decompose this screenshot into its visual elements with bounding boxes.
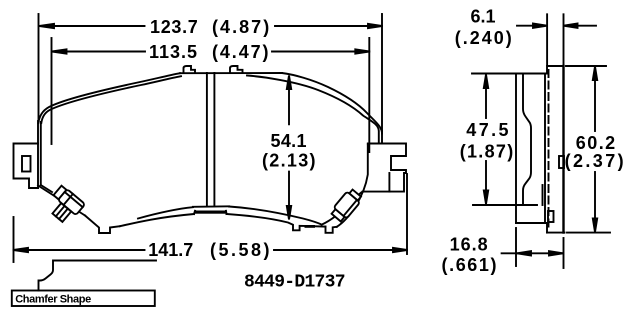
svg-text:123.7: 123.7	[150, 17, 198, 37]
svg-text:60.2: 60.2	[576, 133, 615, 153]
svg-text:Chamfer Shape: Chamfer Shape	[15, 293, 91, 305]
svg-text:47.5: 47.5	[466, 120, 508, 140]
svg-text:(4.87): (4.87)	[212, 17, 269, 37]
svg-text:6.1: 6.1	[471, 6, 496, 26]
svg-text:(4.47): (4.47)	[212, 42, 269, 62]
svg-text:54.1: 54.1	[271, 131, 307, 151]
svg-text:8449-D1737: 8449-D1737	[244, 272, 346, 292]
svg-text:113.5: 113.5	[149, 42, 197, 62]
svg-text:(.661): (.661)	[442, 255, 497, 275]
svg-text:(.240): (.240)	[455, 28, 512, 48]
svg-text:(1.87): (1.87)	[460, 142, 514, 162]
svg-text:141.7: 141.7	[148, 240, 193, 260]
svg-text:(5.58): (5.58)	[210, 240, 270, 260]
svg-text:(2.37): (2.37)	[565, 151, 624, 171]
svg-text:16.8: 16.8	[450, 234, 488, 254]
svg-text:(2.13): (2.13)	[262, 151, 316, 171]
